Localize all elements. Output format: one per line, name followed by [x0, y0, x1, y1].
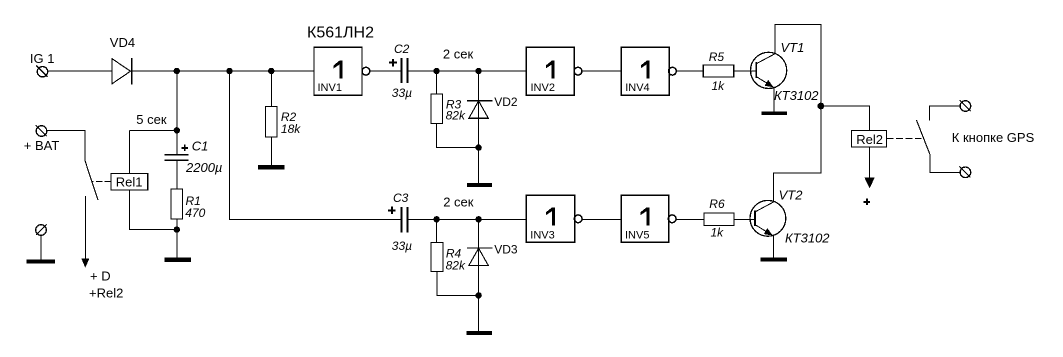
wire node D down to VT2 collector [774, 106, 821, 202]
svg-text:VT1: VT1 [781, 40, 805, 55]
switch SA1 pole wire [47, 130, 85, 161]
svg-text:+Rel2: +Rel2 [89, 286, 123, 301]
inverter U3 INV3 [526, 195, 582, 242]
svg-text:1k: 1k [711, 225, 725, 239]
svg-text:18k: 18k [281, 122, 301, 136]
diode VD3 [467, 219, 518, 295]
wire R5 to VT1 base [734, 70, 757, 72]
wire C3 to INV3 [408, 218, 526, 220]
svg-text:1k: 1k [712, 79, 726, 93]
svg-text:INV4: INV4 [625, 82, 649, 94]
junction node VD3 top [475, 216, 481, 222]
relay coil Rel2 [852, 131, 887, 148]
svg-text:VT2: VT2 [779, 188, 804, 203]
junction node D [818, 103, 825, 110]
junction node VD2 top [475, 68, 481, 74]
inverter U1 INV1 [314, 47, 370, 95]
svg-text:82k: 82k [446, 259, 466, 273]
svg-text:2 сек: 2 сек [443, 46, 474, 61]
switch GPS bottom wire [930, 155, 959, 172]
capacitor C3 [388, 191, 412, 253]
svg-text:+ D: + D [90, 269, 111, 284]
ground under VT1 [762, 111, 787, 115]
svg-text:IG 1: IG 1 [30, 51, 55, 66]
svg-text:2200µ: 2200µ [185, 160, 222, 175]
svg-text:К561ЛН2: К561ЛН2 [307, 25, 374, 42]
transistor VT2 [750, 188, 830, 246]
ground under VD2 [467, 183, 492, 187]
ground under VT2 [760, 258, 787, 262]
wire lower-row branch [230, 71, 402, 219]
resistor R1 [171, 189, 206, 220]
svg-text:33µ: 33µ [392, 239, 412, 253]
terminal + BAT [24, 125, 60, 153]
resistor R4 [431, 219, 479, 295]
junction node B top of lower-row branch [226, 68, 232, 74]
diode VD4 [110, 35, 135, 85]
terminal lower left [36, 225, 47, 260]
wire node D to Rel2 [821, 106, 870, 131]
transistor VT1 [751, 40, 820, 103]
switch GPS blade [916, 120, 930, 155]
resistor R3 [431, 71, 479, 148]
svg-text:C1: C1 [192, 139, 209, 154]
svg-text:5 сек: 5 сек [136, 112, 167, 127]
svg-text:INV3: INV3 [530, 230, 554, 242]
junction node R1 bottom [174, 226, 180, 232]
arrow + D output [81, 196, 123, 301]
wire VT1 collector to node D [775, 24, 821, 106]
wire VD4 to INV1 [132, 70, 314, 72]
svg-text:+ BAT: + BAT [24, 138, 60, 153]
resistor R2 [266, 106, 302, 137]
svg-text:33µ: 33µ [392, 86, 412, 100]
terminal GPS bottom [960, 166, 971, 177]
svg-text:C3: C3 [393, 191, 409, 205]
wire R6 to VT2 base [734, 218, 755, 220]
wire node A down to C1 [176, 71, 178, 154]
svg-text:C2: C2 [394, 42, 410, 56]
inverter U5 INV5 [621, 195, 676, 242]
junction node 5 sek [174, 127, 180, 133]
junction node A top of C1 branch [174, 68, 180, 74]
svg-text:КТ3102: КТ3102 [785, 230, 830, 245]
wire INV1 to C2 [370, 70, 401, 72]
wire R2 bottom to ground [270, 137, 272, 165]
svg-text:470: 470 [185, 206, 205, 220]
dashed link to Rel1 [92, 181, 111, 183]
wire R2 top [270, 71, 272, 106]
svg-text:INV2: INV2 [531, 82, 555, 94]
diode VD2 [467, 71, 518, 148]
wire R1 bottom to node [176, 219, 178, 230]
svg-text:INV1: INV1 [318, 82, 342, 94]
wire INV2 to INV4 [582, 70, 621, 72]
ground under lower left terminal [26, 259, 55, 263]
junction node R4/VD3 bottom [475, 292, 481, 298]
junction node R4 top [433, 216, 439, 222]
svg-text:К кнопке GPS: К кнопке GPS [952, 130, 1035, 145]
svg-text:Rel2: Rel2 [856, 132, 883, 147]
wire Rel1 top [129, 130, 131, 173]
arrow + under Rel2 [864, 147, 875, 205]
wire VT1 emitter to ground [773, 88, 775, 112]
junction node R3/VD2 bottom [475, 144, 481, 150]
wire INV3 to INV5 [582, 218, 621, 220]
svg-text:КТ3102: КТ3102 [774, 88, 819, 103]
wire INV5 to R6 [676, 218, 704, 220]
junction node R3 top [433, 68, 439, 74]
inverter U2 INV2 [526, 47, 582, 95]
resistor R6 [704, 197, 734, 239]
resistor R5 [703, 50, 734, 93]
inverter U4 INV4 [621, 47, 676, 95]
wire IG1 to VD4 [48, 70, 112, 72]
wire 5 sek horizontal [130, 129, 177, 131]
wire VT2 emitter to ground [772, 236, 774, 258]
terminal GPS top [960, 100, 971, 111]
junction node C top of R2 branch [268, 68, 274, 74]
capacitor C2 [389, 42, 412, 100]
svg-text:82k: 82k [446, 109, 466, 123]
relay coil Rel1 [111, 174, 148, 191]
svg-text:VD2: VD2 [494, 95, 518, 109]
capacitor C1 [165, 139, 223, 189]
wire INV4 to R5 [676, 70, 703, 72]
switch GPS pole wire [929, 106, 959, 121]
wire to ground under VD3 [478, 295, 480, 331]
ground under R2 [258, 165, 285, 169]
ground under VD3 [466, 331, 492, 335]
wire node to ground [176, 230, 178, 258]
wire C2 to INV2 [408, 70, 526, 72]
svg-text:VD4: VD4 [110, 35, 135, 50]
svg-text:Rel1: Rel1 [116, 175, 143, 190]
svg-text:INV5: INV5 [625, 230, 649, 242]
terminal IG 1 [30, 51, 55, 77]
svg-text:VD3: VD3 [494, 243, 518, 257]
ground under R1 [165, 258, 192, 262]
svg-text:2 сек: 2 сек [443, 195, 474, 210]
wire Rel1 bottom [130, 190, 177, 230]
svg-text:R6: R6 [709, 197, 725, 211]
dashed link Rel2 to GPS switch [887, 137, 922, 139]
switch SA1 blade [85, 161, 98, 200]
wire to ground under VD2 [478, 148, 480, 184]
svg-text:R5: R5 [709, 50, 725, 64]
